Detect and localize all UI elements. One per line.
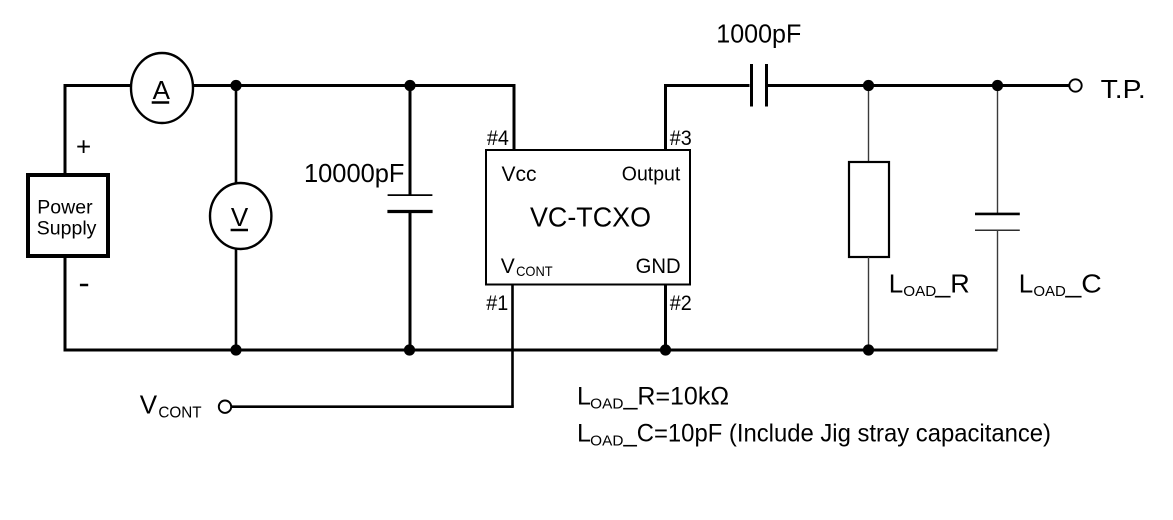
svg-text:1000pF: 1000pF	[716, 18, 801, 48]
junction node top 10000pF	[404, 80, 415, 91]
capacitor C1 plate top	[388, 194, 433, 196]
svg-text:L: L	[577, 420, 591, 448]
wire coupling capacitor to test point	[768, 84, 1070, 87]
svg-text:+: +	[76, 131, 91, 161]
wire left vertical from top bus to power supply	[64, 84, 67, 175]
svg-text:V: V	[501, 255, 515, 278]
svg-text:A: A	[153, 75, 171, 105]
svg-text:OAD: OAD	[903, 284, 936, 300]
junction node bottom 10000pF	[404, 344, 415, 355]
wire pin 2 to bottom bus	[664, 285, 667, 351]
svg-text:#4: #4	[487, 127, 509, 150]
capacitor C2 1000pF plates	[752, 64, 767, 107]
capacitor C3 plate bottom	[975, 229, 1020, 231]
capacitor C1 branch bottom wire	[409, 212, 412, 351]
wire load capacitor top thin	[997, 86, 999, 214]
wire top bus from left corner to pin #4 corner	[65, 84, 514, 87]
junction node bottom load resistor	[863, 344, 874, 355]
wire pin 1 vertical crossing bottom bus	[511, 285, 514, 407]
svg-text:_C=10pF (Include Jig stray cap: _C=10pF (Include Jig stray capacitance)	[623, 420, 1051, 448]
wire power supply minus to bottom bus	[64, 256, 67, 350]
svg-text:Supply: Supply	[37, 218, 97, 240]
minus terminal label	[80, 284, 88, 287]
junction node top load resistor	[863, 80, 874, 91]
svg-text:CONT: CONT	[158, 405, 201, 422]
ammeter A1	[131, 53, 193, 123]
terminal T.P. open circle	[1069, 79, 1081, 91]
svg-text:Power: Power	[37, 197, 93, 219]
voltmeter V1	[210, 183, 271, 249]
junction node bottom GND pin	[660, 344, 671, 355]
svg-text:OAD: OAD	[590, 433, 623, 449]
wire bottom bus	[64, 349, 998, 352]
svg-text:_R=10kΩ: _R=10kΩ	[623, 383, 729, 411]
svg-text:VC-TCXO: VC-TCXO	[530, 201, 651, 232]
wire load resistor bottom thin	[868, 257, 870, 350]
junction node top load capacitor	[992, 80, 1003, 91]
svg-text:CONT: CONT	[516, 263, 553, 279]
wire load capacitor bottom thin	[997, 230, 999, 350]
junction node top voltmeter	[230, 80, 241, 91]
wire Vcont horizontal	[232, 405, 514, 408]
wire pin 3 vertical	[664, 84, 667, 150]
terminal Vcont open circle	[219, 401, 231, 413]
svg-text:OAD: OAD	[590, 397, 623, 413]
svg-text:10000pF: 10000pF	[304, 158, 405, 188]
oscillator U1 VC-TCXO box	[486, 150, 690, 285]
capacitor C3 plate top	[975, 213, 1020, 216]
svg-text:_R: _R	[934, 269, 970, 299]
wire pin 4 vertical	[513, 84, 516, 150]
wire voltmeter branch	[235, 86, 238, 351]
svg-text:V: V	[140, 390, 158, 420]
svg-text:Vcc: Vcc	[502, 163, 537, 186]
svg-text:Output: Output	[622, 164, 681, 186]
power supply PS1 box	[28, 175, 108, 256]
svg-text:GND: GND	[636, 255, 681, 278]
junction node bottom voltmeter	[230, 344, 241, 355]
svg-text:_C: _C	[1064, 269, 1101, 299]
svg-text:V: V	[231, 202, 249, 232]
svg-text:L: L	[577, 383, 591, 411]
capacitor C1 10000pF branch top wire	[409, 86, 412, 195]
resistor R1 load body	[849, 162, 889, 257]
svg-text:L: L	[1019, 269, 1033, 299]
wire load resistor top thin	[868, 86, 870, 163]
svg-text:OAD: OAD	[1033, 284, 1066, 300]
wire pin 3 to coupling capacitor	[664, 84, 750, 87]
svg-text:T.P.: T.P.	[1101, 74, 1146, 104]
capacitor C1 plate bottom	[387, 210, 432, 213]
svg-text:L: L	[889, 269, 903, 299]
svg-text:#1: #1	[486, 292, 508, 315]
svg-text:#2: #2	[670, 292, 692, 315]
svg-text:#3: #3	[670, 127, 692, 150]
